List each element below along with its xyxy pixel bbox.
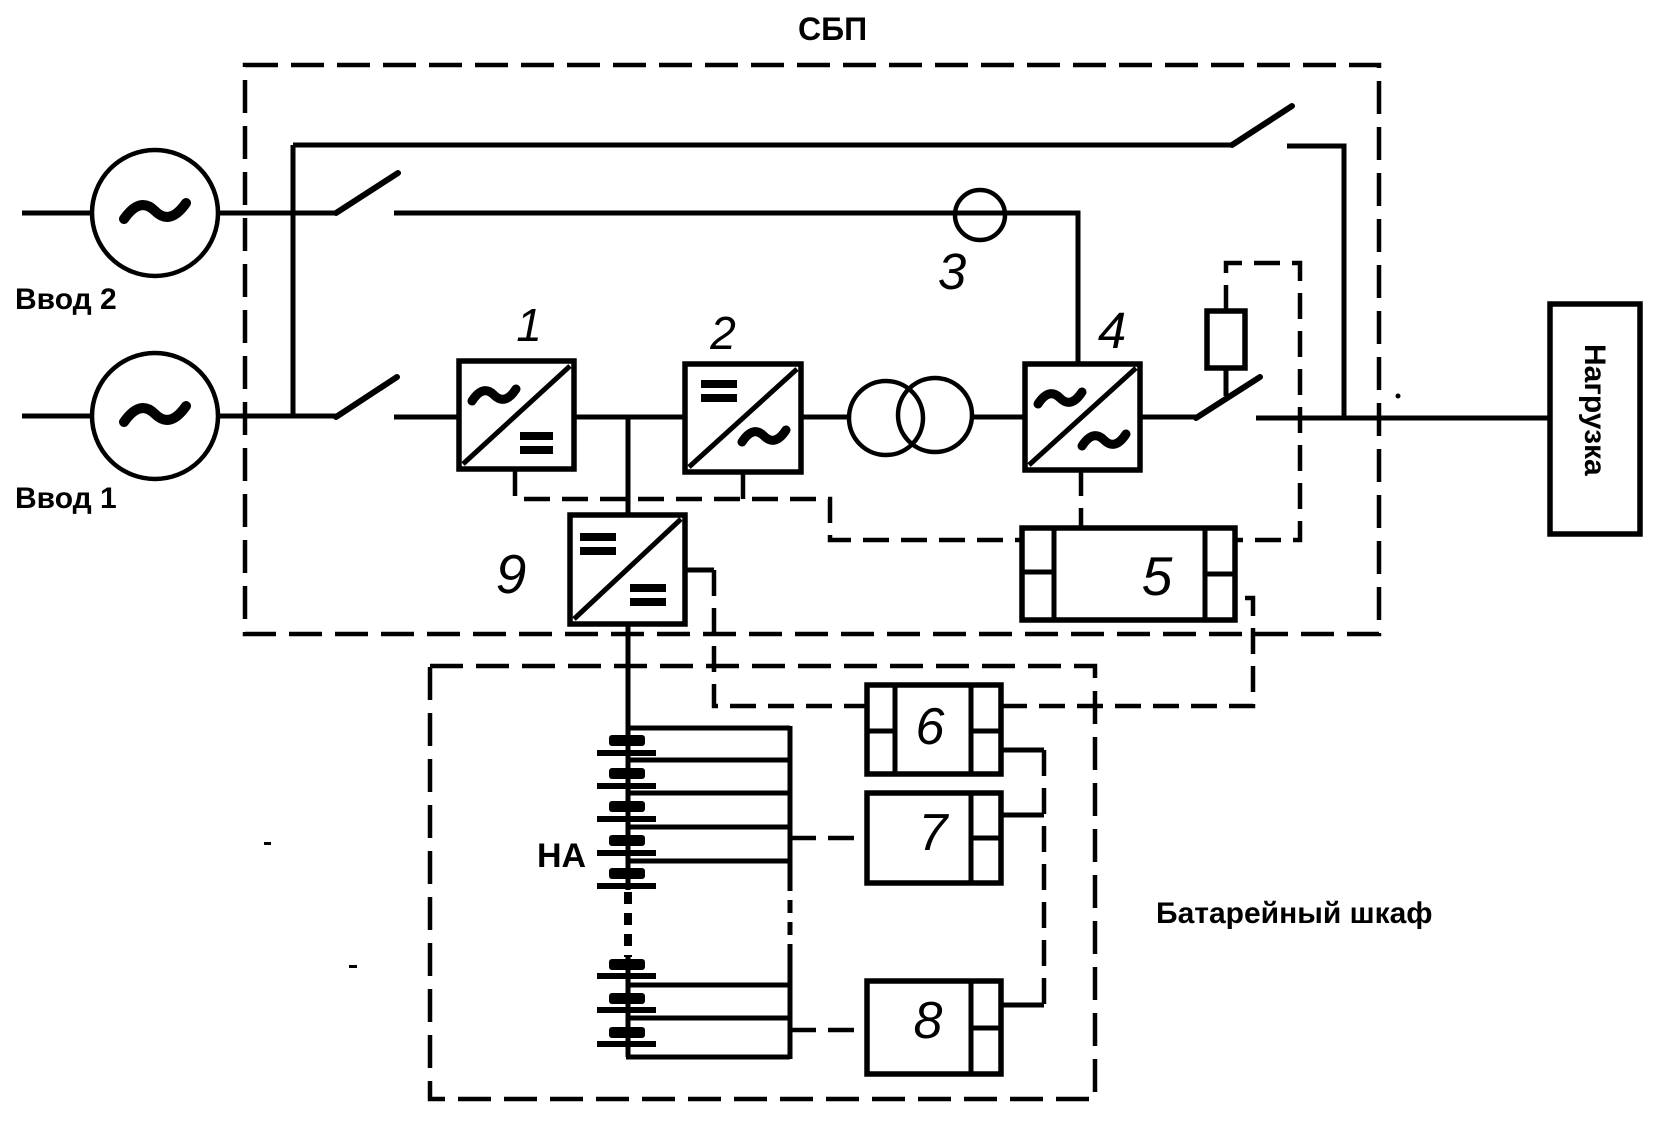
rectifier 1	[459, 361, 574, 469]
stray mark b	[349, 965, 357, 968]
fuse F1	[1207, 311, 1245, 368]
block 5	[1022, 528, 1235, 620]
battery cells group 2	[597, 959, 656, 1047]
battery taps	[628, 760, 790, 1018]
battery right rail top	[788, 726, 793, 878]
dashed battery to 8	[790, 1028, 867, 1033]
block 6	[867, 685, 1001, 774]
block 8	[867, 981, 1001, 1074]
wire input 2 after switch to converter 4	[394, 213, 1078, 364]
wire junction down to 9	[626, 417, 631, 515]
svg-text:1: 1	[516, 299, 542, 351]
bypass tap vertical	[291, 145, 296, 417]
battery bottom rung	[626, 1055, 790, 1060]
output bus wire	[1256, 416, 1550, 421]
battery cabinet dashed box	[430, 666, 1095, 1099]
battery right rail bottom	[788, 955, 793, 1059]
battery axis top	[626, 728, 631, 890]
dashed control: 1,2 to 5	[515, 470, 1022, 540]
stray dot	[1396, 394, 1401, 399]
wire transformer to 4	[972, 415, 1025, 420]
switch Q1 blade	[336, 377, 397, 417]
transformer T1	[849, 378, 972, 455]
svg-text:3: 3	[938, 243, 966, 300]
battery axis dashed	[624, 892, 632, 957]
dashed branch to 2	[741, 470, 746, 499]
dashed 6 to 5 loop	[1001, 598, 1253, 706]
svg-text:Ввод 1: Ввод 1	[15, 482, 117, 515]
bypass wire down to output	[1287, 146, 1344, 418]
battery cells group 1	[597, 735, 656, 889]
battery HA: top rung	[626, 726, 790, 731]
wire 9 down to battery	[626, 624, 631, 730]
svg-text:5: 5	[1142, 545, 1173, 607]
wire input 2 to switch	[217, 211, 336, 216]
wire input 1 left	[22, 414, 93, 419]
wire 9 right stub	[685, 568, 714, 573]
AC source G1 (Ввод 1)	[92, 353, 218, 479]
dashed vertical 6-7-8	[1042, 750, 1047, 1005]
dashed 9 to 6	[714, 570, 867, 706]
svg-text:Батарейный шкаф: Батарейный шкаф	[1156, 897, 1433, 930]
wire switch to rectifier 1	[394, 415, 459, 420]
СБП dashed box	[245, 65, 1379, 634]
wire 6 right stub	[1001, 748, 1044, 753]
svg-text:9: 9	[496, 543, 527, 605]
svg-text:2: 2	[709, 307, 736, 359]
bypass switch blade	[1232, 106, 1292, 145]
bypass top line	[293, 143, 1232, 148]
dashed 4 to 5	[1079, 470, 1084, 528]
wire 1 to 2	[574, 415, 685, 420]
converter 4	[1025, 364, 1140, 470]
wire input 1 to switch	[217, 414, 336, 419]
inverter 2	[685, 364, 801, 472]
battery right rail dashed	[788, 878, 793, 957]
wire 8 right stub	[1001, 1003, 1044, 1008]
measuring transducer 3	[955, 190, 1005, 240]
svg-text:6: 6	[916, 698, 945, 756]
wire 2 to transformer	[801, 415, 850, 420]
output switch blade	[1196, 377, 1260, 418]
wire input 2 left	[22, 211, 93, 216]
AC source G2 (Ввод 2)	[92, 150, 218, 276]
battery axis bottom	[626, 955, 631, 1057]
svg-text:4: 4	[1098, 302, 1126, 359]
switch Q2 blade	[336, 173, 398, 213]
svg-text:8: 8	[914, 992, 943, 1050]
svg-text:Нагрузка: Нагрузка	[1578, 344, 1611, 476]
load box Нагрузка	[1550, 304, 1640, 534]
svg-text:7: 7	[919, 804, 950, 862]
stray mark a	[264, 842, 271, 845]
fuse stem wire	[1224, 368, 1229, 396]
dashed link fuse to node	[1226, 263, 1300, 540]
converter 9	[570, 515, 685, 624]
svg-text:Ввод 2: Ввод 2	[15, 283, 117, 316]
dashed battery to 7	[790, 836, 867, 841]
wire 4 to output switch	[1140, 415, 1196, 420]
svg-text:СБП: СБП	[798, 11, 867, 47]
svg-text:НА: НА	[537, 837, 586, 875]
wire 7 right stub	[1001, 813, 1044, 818]
block 7	[867, 793, 1001, 883]
